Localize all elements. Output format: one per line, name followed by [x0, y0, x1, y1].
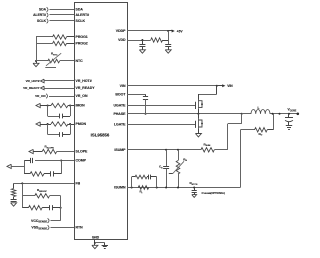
- svg-text:VR_ON: VR_ON: [35, 94, 45, 98]
- svg-text:VR_ON: VR_ON: [76, 94, 89, 98]
- svg-text:COMP: COMP: [76, 159, 87, 163]
- svg-text:SDA: SDA: [39, 8, 47, 12]
- svg-text:ISL95856: ISL95856: [91, 132, 110, 137]
- svg-text:FB: FB: [76, 182, 81, 186]
- svg-text:PMON: PMON: [76, 122, 87, 126]
- svg-text:VIN: VIN: [120, 84, 126, 88]
- svg-text:L: L: [258, 106, 260, 110]
- svg-text:VDDP: VDDP: [116, 29, 126, 33]
- svg-text:RTN: RTN: [76, 226, 84, 230]
- svg-text:SLOPE: SLOPE: [76, 150, 89, 154]
- svg-text:PROG2: PROG2: [76, 42, 88, 46]
- svg-text:ALERT#: ALERT#: [76, 13, 90, 17]
- svg-text:IMON: IMON: [76, 104, 86, 108]
- svg-text:VIN: VIN: [227, 84, 233, 88]
- svg-text:LGATE: LGATE: [114, 123, 126, 127]
- svg-text:SDA: SDA: [76, 8, 84, 12]
- svg-text:PROG1: PROG1: [76, 35, 88, 39]
- svg-text:BOOT: BOOT: [115, 93, 126, 97]
- svg-text:SCLK: SCLK: [76, 19, 86, 23]
- svg-text:ISUMP: ISUMP: [114, 148, 126, 152]
- svg-text:ALERT#: ALERT#: [33, 13, 46, 17]
- svg-text:SCLK: SCLK: [37, 19, 47, 23]
- svg-text:PHASE: PHASE: [113, 112, 126, 116]
- svg-text:VDD: VDD: [118, 38, 126, 42]
- svg-text:+5V: +5V: [177, 29, 184, 33]
- svg-text:UGATE: UGATE: [114, 104, 127, 108]
- svg-text:ISUMN: ISUMN: [114, 186, 126, 190]
- svg-text:VR_READY: VR_READY: [23, 86, 39, 90]
- svg-text:(OPTIONAL): (OPTIONAL): [211, 192, 226, 195]
- svg-text:VR_HOT#: VR_HOT#: [76, 79, 92, 83]
- svg-text:GND: GND: [92, 236, 100, 240]
- svg-text:NTC: NTC: [76, 59, 84, 63]
- svg-text:VR_READY: VR_READY: [76, 86, 96, 90]
- svg-text:VR_HOT#: VR_HOT#: [26, 79, 40, 83]
